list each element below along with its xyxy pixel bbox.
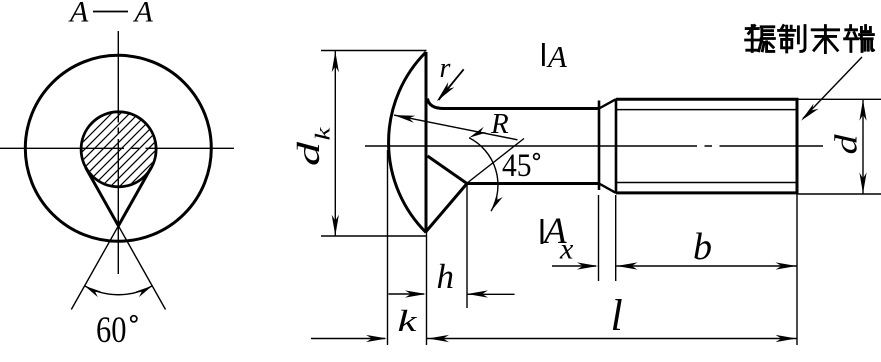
svg-text:l: l [611, 291, 623, 340]
svg-text:k: k [311, 127, 335, 141]
svg-text:x: x [559, 233, 574, 266]
svg-text:b: b [693, 226, 712, 268]
svg-text:45: 45 [502, 148, 532, 184]
svg-text:A: A [68, 0, 89, 29]
svg-text:R: R [490, 108, 509, 140]
svg-text:A: A [133, 0, 154, 29]
svg-text:d: d [290, 141, 326, 167]
svg-text:d: d [828, 133, 864, 154]
svg-text:r: r [440, 53, 451, 84]
svg-text:A: A [546, 39, 568, 74]
svg-text:60: 60 [96, 309, 127, 350]
svg-text:k: k [398, 303, 419, 338]
svg-text:h: h [437, 257, 455, 296]
